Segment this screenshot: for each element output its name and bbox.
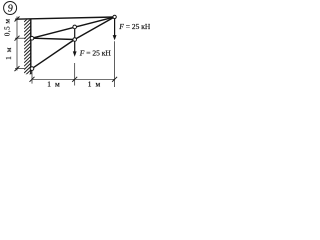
member C to D (75, 17, 115, 40)
svg-text:0,5 м: 0,5 м (3, 19, 12, 37)
svg-text:9: 9 (8, 4, 13, 15)
left dimension line (16, 17, 18, 71)
node A (30, 36, 34, 40)
force arrow at node D (113, 17, 117, 40)
top beam wall to node D (with left dimension extension) (15, 17, 114, 19)
force arrow at node C (73, 40, 77, 57)
tick at B level (15, 66, 20, 71)
bottom tick at D (112, 77, 117, 82)
wall face line (30, 19, 32, 74)
member A to C (32, 38, 75, 39)
node C (73, 38, 77, 42)
bottom dimension line (32, 78, 115, 80)
svg-text:1 м: 1 м (88, 79, 102, 88)
svg-text:1 м: 1 м (4, 47, 13, 60)
extension line below B (31, 69, 33, 84)
node D (113, 15, 116, 18)
extension line below D arrow (114, 41, 116, 87)
left extension at B level (15, 68, 25, 70)
wall hatching (24, 15, 31, 79)
svg-text:F = 25 кН: F = 25 кН (118, 22, 150, 31)
member B to C (32, 40, 75, 69)
tick top left (15, 17, 20, 22)
node E (73, 25, 77, 29)
variant number badge circle 9 (4, 2, 17, 15)
svg-text:1 м: 1 м (47, 79, 61, 88)
bottom tick at B (30, 77, 35, 82)
left extension at A level (15, 37, 26, 39)
node B (30, 67, 34, 71)
bottom tick at C (72, 77, 77, 82)
svg-text:F = 25 кН: F = 25 кН (79, 49, 112, 58)
tick at A level (15, 36, 20, 41)
extension line below C arrow (74, 63, 76, 86)
post E to C (74, 27, 76, 40)
diagonal member A to D through E (32, 17, 115, 38)
